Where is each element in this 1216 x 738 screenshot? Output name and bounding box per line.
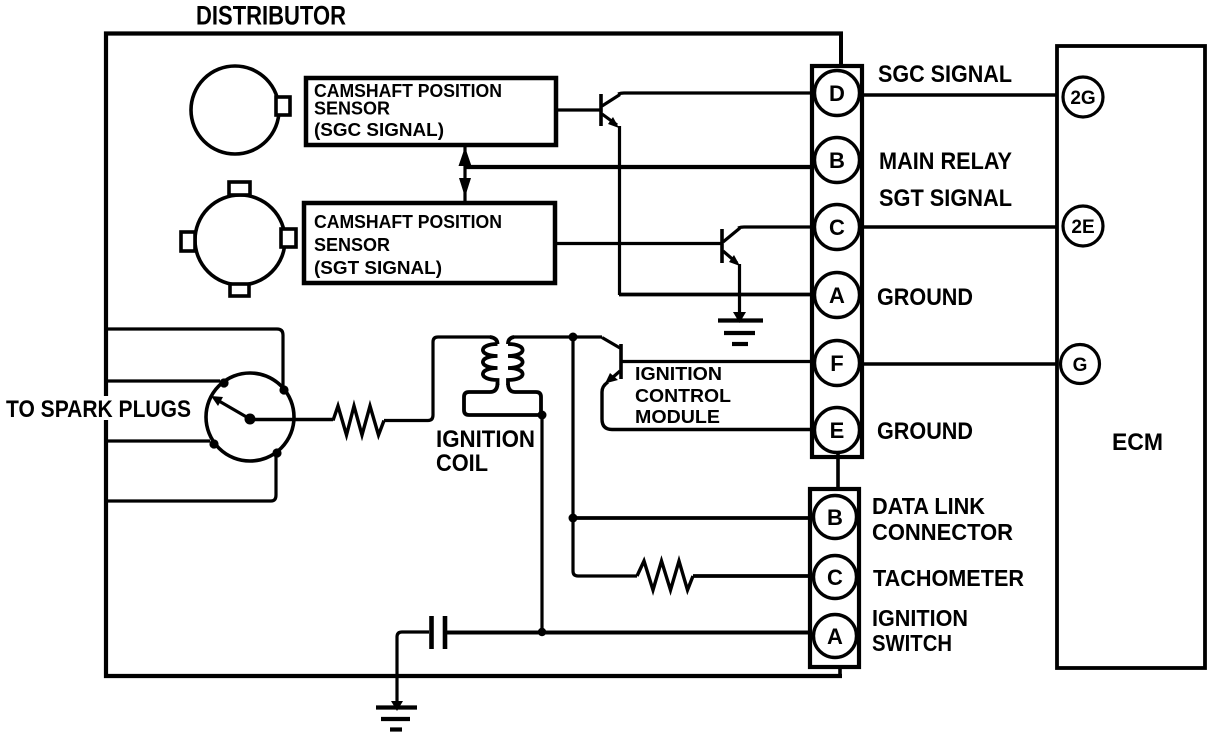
arrow down on link <box>459 178 471 197</box>
wire: ground line to connector A <box>619 293 815 297</box>
wire: spark plug lead 4 <box>106 456 276 501</box>
svg-text:SWITCH: SWITCH <box>872 630 952 656</box>
svg-text:(SGT SIGNAL): (SGT SIGNAL) <box>314 258 442 278</box>
svg-text:2G: 2G <box>1070 88 1095 109</box>
wire: spark plug lead 3 <box>106 439 210 442</box>
wire: resistor to ignition coil primary <box>384 337 491 421</box>
svg-text:DISTRIBUTOR: DISTRIBUTOR <box>196 1 346 31</box>
svg-text:IGNITION: IGNITION <box>436 426 535 453</box>
svg-text:ECM: ECM <box>1112 429 1163 456</box>
wire: strip 2 to box bottom <box>838 667 842 676</box>
svg-text:B: B <box>829 148 845 173</box>
wire: resistor to connector C2 <box>693 574 814 578</box>
pickup reluctor (plain circle) <box>191 66 290 154</box>
connector strip 2 <box>810 489 859 667</box>
node: coil common junction <box>538 411 547 420</box>
box: camshaft position sensor (SGC) <box>306 78 556 145</box>
svg-text:DATA LINK: DATA LINK <box>872 493 985 519</box>
connector strip 1 <box>812 66 862 457</box>
svg-text:B: B <box>827 505 843 530</box>
pin F <box>815 341 860 386</box>
label IGNITION CONTROL MODULE <box>635 364 731 427</box>
svg-text:CAMSHAFT POSITION: CAMSHAFT POSITION <box>314 212 502 232</box>
ECM pin G <box>1061 345 1100 384</box>
pin C2 <box>814 556 857 599</box>
resistor R2 (tachometer) <box>637 561 693 590</box>
svg-text:SGT SIGNAL: SGT SIGNAL <box>879 185 1012 212</box>
wire: coil common drop to capacitor line <box>540 415 543 632</box>
svg-text:SGC SIGNAL: SGC SIGNAL <box>878 61 1012 88</box>
wire: junction down to tachometer line <box>573 518 637 576</box>
ground (capacitor) <box>376 701 417 730</box>
wire: Q2 collector to connector C <box>738 227 815 228</box>
svg-text:(SGC SIGNAL): (SGC SIGNAL) <box>314 120 444 140</box>
svg-text:SENSOR: SENSOR <box>314 99 390 119</box>
wire: capacitor to connector A2 (ignition switch) <box>447 631 814 635</box>
pin B <box>815 138 860 183</box>
svg-text:MAIN RELAY: MAIN RELAY <box>879 148 1012 175</box>
wire: inter-sensor vertical link <box>463 145 466 203</box>
wire: coil junction drop to data link <box>571 337 574 518</box>
wire: junction to connector B2 (data link) <box>573 516 814 520</box>
ECM box <box>1057 46 1205 668</box>
wire: E to strip 2 <box>836 453 840 489</box>
svg-text:2E: 2E <box>1071 217 1094 238</box>
svg-text:D: D <box>829 81 845 106</box>
svg-text:IGNITION: IGNITION <box>635 364 722 384</box>
wire: spark plug lead 1 <box>106 329 283 386</box>
svg-text:E: E <box>830 418 845 443</box>
transistor Q1 <box>601 94 620 128</box>
transistor Q2 <box>722 228 740 266</box>
wire: capacitor left to ground <box>397 632 429 703</box>
wire: SGT box to Q2 base <box>556 242 721 245</box>
pin A <box>815 273 860 318</box>
svg-text:F: F <box>830 351 843 376</box>
ground (Q2 emitter) <box>718 312 763 344</box>
wire: rotor center to resistor <box>253 418 333 421</box>
svg-text:SENSOR: SENSOR <box>314 235 390 255</box>
wire: coil top to Q3 <box>513 335 602 338</box>
wire: link to connector B (main relay) <box>465 165 816 169</box>
svg-text:TO SPARK PLUGS: TO SPARK PLUGS <box>6 396 191 423</box>
pickup reluctor (4-tab circle) <box>181 182 296 296</box>
svg-text:GROUND: GROUND <box>877 418 973 445</box>
pin D <box>815 71 860 116</box>
wire: box top to connector D <box>839 33 843 70</box>
node: coil top junction <box>569 333 578 342</box>
pin E <box>815 408 860 453</box>
svg-text:TACHOMETER: TACHOMETER <box>873 565 1024 591</box>
capacitor C1 <box>432 616 446 649</box>
wire: Q1 emitter down <box>618 126 621 295</box>
wire: Q1 collector to connector D <box>618 93 815 94</box>
svg-text:CONNECTOR: CONNECTOR <box>872 519 1013 545</box>
pin A2 <box>814 615 857 658</box>
svg-text:COIL: COIL <box>436 450 488 477</box>
arrow up on link <box>459 147 472 166</box>
pin C <box>815 205 860 250</box>
wire: Q3 base to connector F <box>623 360 817 363</box>
svg-text:MODULE: MODULE <box>635 407 720 427</box>
wire: Q3 emitter to connector E <box>602 382 816 430</box>
ignition coil secondary winding <box>508 337 541 413</box>
distributor rotor <box>206 373 294 461</box>
wire: spark plug lead 2 <box>106 379 220 382</box>
wire: C to ECM 2E <box>862 225 1063 228</box>
svg-text:GROUND: GROUND <box>877 284 973 311</box>
distributor enclosure box <box>106 34 843 677</box>
label TO SPARK PLUGS <box>3 396 195 423</box>
label IGNITION COIL <box>436 426 535 477</box>
node: data link junction <box>569 514 578 523</box>
wire: Q2 emitter to ground <box>738 264 741 317</box>
svg-text:CONTROL: CONTROL <box>635 386 731 406</box>
ECM pin 2E <box>1063 206 1103 246</box>
svg-text:A: A <box>827 624 843 649</box>
ignition coil primary winding <box>464 337 540 415</box>
box: camshaft position sensor (SGT) <box>304 203 555 283</box>
svg-text:IGNITION: IGNITION <box>872 605 968 631</box>
ECM pin 2G <box>1063 77 1103 117</box>
wire: SGC box to Q1 base <box>556 108 600 111</box>
rotor contact dots <box>209 378 288 457</box>
svg-text:G: G <box>1073 355 1088 376</box>
svg-text:C: C <box>829 215 845 240</box>
wire: F to ECM G <box>861 362 1060 365</box>
node: capacitor line junction <box>538 628 546 636</box>
svg-text:C: C <box>827 565 843 590</box>
resistor R1 (rotor suppression) <box>333 406 384 435</box>
svg-text:A: A <box>829 283 845 308</box>
wire: D to ECM 2G <box>862 93 1063 96</box>
transistor Q3 <box>602 338 621 384</box>
pin B2 <box>814 496 857 539</box>
